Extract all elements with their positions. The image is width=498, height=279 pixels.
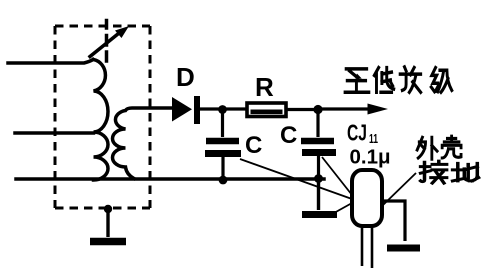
svg-text:CJ: CJ xyxy=(347,120,367,146)
svg-text:C: C xyxy=(280,122,297,149)
svg-text:0.1μ: 0.1μ xyxy=(350,146,391,169)
svg-text:C: C xyxy=(245,132,262,159)
svg-text:R: R xyxy=(255,72,274,102)
svg-text:11: 11 xyxy=(369,131,378,146)
svg-text:D: D xyxy=(176,62,195,92)
